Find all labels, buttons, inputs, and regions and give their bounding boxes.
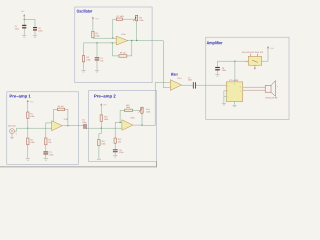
wire R2 bottom: [27, 145, 29, 158]
junction: [24, 19, 25, 20]
capacitor C4: [95, 57, 100, 60]
wire R1 bottom to input rail: [27, 118, 29, 128]
value label C3 100n: [49, 151, 53, 156]
wire R2 top: [27, 128, 29, 138]
block title Pre-amp 2: [94, 95, 115, 99]
svg-text:R9 1M: R9 1M: [120, 51, 126, 54]
wire preamp2 output to mixer: [133, 82, 170, 125]
ground: [10, 137, 13, 138]
junction: [101, 128, 102, 129]
wire speaker return: [243, 89, 265, 91]
svg-text:+: +: [277, 85, 279, 88]
wire input rail: [17, 127, 52, 129]
value label R3 10k: [48, 139, 51, 145]
svg-text:+9V: +9V: [270, 47, 274, 50]
svg-text:100k: 100k: [139, 19, 143, 22]
value label R14 100k: [146, 108, 150, 114]
pin 3 stub: [224, 96, 226, 98]
svg-text:IC1B: IC1B: [121, 33, 126, 36]
resistor R3: [45, 138, 47, 145]
junction: [96, 42, 97, 43]
wire IC bottom pin: [234, 102, 236, 105]
wire supply rail: [24, 18, 35, 20]
svg-text:100k: 100k: [30, 141, 34, 144]
value label C8 100u: [222, 67, 226, 72]
svg-text:100k: 100k: [30, 115, 34, 118]
wire C7 to amplifier: [196, 84, 226, 86]
pin 2 stub: [224, 90, 226, 92]
wire trimmer to output: [141, 113, 143, 125]
sections injected below: [15, 10, 43, 37]
wire inverting input: [46, 123, 52, 138]
svg-text:100u: 100u: [222, 69, 226, 72]
resistor R9: [119, 55, 127, 58]
wire preamp1 output: [62, 125, 84, 127]
ground: [232, 105, 236, 107]
capacitor C1 100u (polarized): [22, 25, 26, 29]
block title Pre-amp 1: [10, 95, 31, 99]
junction: [141, 124, 142, 125]
value label R6 100k: [86, 56, 90, 62]
svg-text:2: 2: [227, 90, 228, 93]
svg-text:100n: 100n: [188, 79, 192, 82]
value label R2 100k: [30, 139, 34, 145]
value label R11 100k: [101, 140, 105, 146]
wire feedback to trimmer: [132, 109, 139, 111]
svg-text:IC2A: IC2A: [64, 118, 69, 121]
wire C5 to opamp input: [87, 127, 123, 129]
resistor R10: [100, 115, 102, 121]
svg-text:MK1 MIC: MK1 MIC: [8, 125, 17, 128]
power flag +9V: [27, 100, 29, 105]
svg-text:100k: 100k: [86, 59, 90, 62]
power flag +9V: [100, 103, 102, 108]
block frame Oscillator: [75, 7, 152, 83]
wire C1 bottom: [23, 28, 25, 35]
value label C4 10n: [100, 57, 103, 62]
capacitor C7 (coupling): [193, 82, 196, 88]
svg-text:+9V: +9V: [95, 17, 99, 20]
power flag +9V: [23, 14, 25, 19]
junction: [234, 61, 235, 62]
wire R5 bottom to opamp inverting input: [93, 37, 116, 40]
wire pins 2-3 to ground: [223, 91, 225, 103]
ground: [44, 159, 48, 161]
value label C7 100n: [188, 76, 192, 81]
block frame Amplifier: [206, 37, 289, 119]
ground: [97, 158, 101, 160]
pin numbers: [227, 83, 241, 99]
ground: [113, 156, 117, 158]
wire C4 top: [96, 43, 98, 57]
svg-text:1: 1: [16, 133, 17, 136]
svg-text:100n: 100n: [49, 153, 53, 156]
wire C8 bottom: [217, 70, 219, 74]
svg-text:100k: 100k: [95, 35, 99, 38]
wire R12 to C6: [114, 143, 116, 149]
svg-text:10k: 10k: [118, 141, 121, 144]
svg-text:6: 6: [234, 83, 235, 86]
wire C3 bottom: [45, 154, 47, 158]
wire R3 to C3: [45, 145, 47, 152]
wire feedback branch down: [112, 43, 119, 56]
value label R8 100k: [139, 17, 143, 23]
switch S1: [245, 54, 262, 65]
svg-text:100k: 100k: [101, 143, 105, 146]
op-amp IC2A: [52, 121, 63, 131]
svg-text:IC2B: IC2B: [130, 117, 135, 120]
junction: [112, 42, 113, 43]
power flag +9V: [92, 17, 94, 22]
wire feedback to output: [127, 41, 132, 56]
trimmer R14 (wiper arrow): [139, 107, 143, 113]
junction: [67, 125, 68, 126]
svg-text:SW1 SG-DISC SMD 1P2: SW1 SG-DISC SMD 1P2: [242, 51, 263, 54]
capacitor C5 (coupling): [84, 124, 87, 129]
op-amp IC1B: [116, 36, 128, 45]
junction: [136, 40, 137, 41]
trimmer R8 (wiper arrow): [133, 15, 137, 21]
wire noninverting input rail: [84, 42, 117, 44]
block frame Pre-amp 2: [88, 91, 156, 162]
resistor R2: [27, 138, 29, 145]
capacitor C6: [113, 149, 118, 152]
ground: [22, 36, 26, 38]
value label C6 100n: [119, 149, 123, 154]
value label R12 10k: [118, 138, 121, 144]
value label C1 100u: [15, 25, 19, 31]
junction: [112, 37, 113, 38]
value label R5 100k: [95, 32, 99, 38]
svg-text:100n: 100n: [82, 121, 86, 124]
ground: [81, 71, 85, 73]
resistor R6: [82, 56, 84, 62]
wire mic to input rail: [15, 128, 17, 131]
wire C8 top: [217, 61, 219, 67]
wire R7 to trimmer: [123, 18, 135, 20]
power flag +9V: [267, 46, 269, 51]
wire R10 bottom: [100, 121, 102, 128]
wire +9V to switch: [262, 51, 268, 61]
junction: [27, 128, 28, 129]
wire R11 bottom: [98, 146, 100, 159]
resistor R1: [27, 112, 29, 118]
capacitor C3: [43, 152, 48, 155]
wire C6 bottom: [114, 152, 116, 155]
wire R11 top: [99, 128, 101, 139]
ground: [222, 103, 226, 105]
wire oscillator to mixer: [163, 41, 170, 88]
wire IC output to speaker: [243, 86, 265, 88]
wire C4 bottom: [96, 60, 98, 69]
wire R1 top: [27, 105, 29, 112]
svg-text:1: 1: [240, 89, 241, 92]
svg-text:100k: 100k: [126, 106, 130, 109]
svg-text:100n: 100n: [119, 151, 123, 154]
svg-text:R4 1M: R4 1M: [58, 105, 64, 108]
wire feedback left: [120, 110, 125, 122]
microphone MK1: [10, 129, 15, 134]
block title Mixer: [171, 73, 178, 76]
wire mic bottom: [11, 134, 13, 137]
block frame Pre-amp 1: [7, 92, 79, 165]
ground: [26, 159, 30, 161]
switch actuator: [254, 65, 256, 69]
amplifier IC3: [226, 82, 243, 102]
wire C1 top: [23, 19, 25, 24]
svg-text:IC1A: IC1A: [177, 77, 182, 80]
wire trimmer to output: [136, 21, 138, 41]
wire feedback right: [65, 109, 68, 126]
wire C2 bottom: [34, 30, 36, 35]
svg-text:3: 3: [227, 84, 228, 87]
svg-text:4: 4: [227, 96, 228, 99]
speaker LS1: [265, 81, 275, 97]
svg-text:+9V: +9V: [21, 10, 25, 13]
op-amp IC1A: [170, 80, 181, 91]
wire feedback left: [54, 109, 58, 123]
ground: [33, 36, 37, 38]
ground: [95, 71, 99, 73]
resistor R4: [57, 108, 64, 111]
resistor R7: [116, 18, 122, 21]
svg-text:SPEAKER 8R: SPEAKER 8R: [265, 97, 278, 100]
wire mixer output: [182, 84, 193, 86]
resistor R11: [98, 139, 100, 145]
op-amp IC2B: [122, 120, 133, 131]
svg-text:R7 100k: R7 100k: [117, 15, 124, 18]
wire R5 top: [92, 22, 94, 32]
value label R13 100k: [126, 104, 130, 109]
value label C5 100n: [82, 119, 86, 124]
wire R5a top: [100, 108, 102, 115]
svg-text:+9V: +9V: [103, 103, 107, 106]
wire switched rail: [218, 60, 245, 62]
capacitor C2 100n: [33, 27, 37, 31]
resistor R13: [125, 109, 133, 112]
wire R6 top: [83, 43, 85, 56]
value label R10 100k: [104, 115, 108, 121]
svg-text:100n: 100n: [38, 29, 42, 32]
wire hysteresis branch up: [113, 19, 117, 38]
wire IC supply pin: [234, 61, 236, 82]
svg-text:100u: 100u: [15, 28, 19, 31]
resistor R5: [92, 31, 94, 37]
block title Oscillator: [77, 9, 93, 12]
wire R6 bottom: [83, 62, 85, 70]
svg-text:100k: 100k: [104, 118, 108, 121]
value label R1 100k: [30, 113, 34, 119]
svg-text:10n: 10n: [100, 59, 103, 62]
svg-text:+9V: +9V: [30, 101, 34, 104]
ground: [215, 75, 219, 77]
sheet frame line: [0, 161, 157, 167]
capacitor C8 100u (polarized): [215, 67, 220, 70]
svg-text:5: 5: [240, 85, 241, 88]
junction: [119, 122, 120, 123]
wire inverting input: [115, 122, 122, 138]
resistor R12: [114, 138, 116, 143]
wire C2 top: [34, 19, 36, 27]
wire oscillator output: [128, 40, 163, 42]
junction: [53, 122, 54, 123]
svg-text:100k: 100k: [146, 110, 150, 113]
value label C2 100n: [38, 27, 42, 32]
svg-text:10k: 10k: [48, 141, 51, 144]
junction: [131, 40, 132, 41]
block title Amplifier: [207, 41, 223, 45]
